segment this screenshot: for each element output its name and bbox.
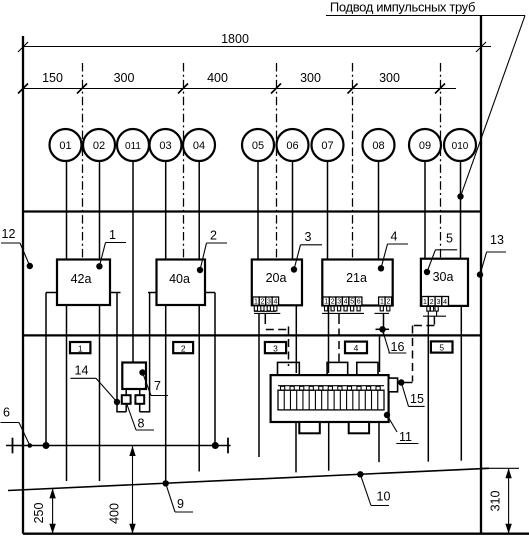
box 21a [322,260,392,306]
svg-text:09: 09 [419,140,431,152]
nameplate box 4 [345,342,367,354]
svg-text:9: 9 [177,497,184,511]
svg-text:3: 3 [305,230,312,244]
nameplate box 1 [70,342,90,353]
saddle bracket of 40a [148,293,215,446]
position label 1 [96,263,102,269]
frame right edge [480,16,482,534]
svg-text:1: 1 [423,299,427,306]
wire from 011 to component 7 [132,161,134,363]
U clamp left (14) [125,404,127,412]
dashed tube route under 20a [264,313,266,324]
label 16 [383,330,390,353]
svg-text:16: 16 [391,340,405,354]
dimension 400 [108,446,136,534]
svg-text:01: 01 [59,140,71,152]
svg-text:4: 4 [273,299,277,306]
svg-text:2: 2 [181,343,186,353]
svg-text:07: 07 [321,140,333,152]
wire from 02 [99,161,101,260]
instrument circles 01..010 [50,129,477,161]
svg-text:5: 5 [350,299,354,306]
svg-text:150: 150 [42,71,63,85]
node 10 dot [357,471,363,477]
label 10 [360,474,371,505]
label 8 [127,405,136,431]
box 42a [57,260,110,306]
wire from 06 [292,161,294,260]
frame bottom edge [23,533,529,535]
svg-text:3: 3 [273,343,278,353]
svg-text:20a: 20a [266,271,287,285]
svg-text:13: 13 [490,233,504,247]
strip cell row [278,390,384,410]
svg-text:02: 02 [93,140,105,152]
svg-text:5: 5 [439,343,444,353]
svg-text:08: 08 [372,140,384,152]
svg-text:4: 4 [354,343,359,353]
svg-text:300: 300 [379,71,400,85]
svg-text:250: 250 [32,503,46,524]
axis dash-dot lines [83,63,441,260]
svg-text:1: 1 [254,299,258,306]
svg-text:40a: 40a [169,272,190,286]
svg-text:06: 06 [286,140,298,152]
svg-text:4: 4 [344,299,348,306]
box 30a [421,259,468,306]
wire from 010 [460,161,462,259]
dimension line 150/300/400/300/300 [23,88,456,90]
dashed tube route 15 from 30a to strip [433,316,435,324]
floor slope line 9/10 [8,468,489,490]
terminal block 1-2 of 21a [379,297,392,306]
strip right connector [389,378,398,392]
svg-text:300: 300 [300,71,321,85]
wire 20a right output [295,305,297,373]
svg-text:1: 1 [380,299,384,306]
svg-text:15: 15 [410,392,424,406]
saddle bracket of 42a [46,293,121,446]
legs of component 7 [125,389,127,395]
svg-text:300: 300 [114,71,135,85]
strip inner top line [278,385,384,387]
terminal legs and bar under 20a [254,305,280,313]
bus line 6 [6,445,231,447]
svg-text:1: 1 [109,228,116,242]
frame band line [23,334,481,336]
wire 20a left output [258,313,260,457]
svg-text:14: 14 [75,364,89,378]
svg-text:4: 4 [443,299,447,306]
svg-text:05: 05 [252,140,264,152]
svg-text:03: 03 [159,140,171,152]
position label 2 [197,267,203,273]
frame top edge [23,210,481,212]
svg-text:2: 2 [430,299,434,306]
svg-text:4: 4 [391,230,398,244]
wire from 09 [424,161,426,259]
dashed tube route under 21a [338,313,340,324]
label 15 [401,383,408,407]
svg-text:1: 1 [78,343,83,353]
svg-text:21a: 21a [346,271,367,285]
box 20a [252,260,302,306]
svg-text:6: 6 [357,299,361,306]
svg-text:310: 310 [489,491,503,512]
svg-text:42a: 42a [71,272,92,286]
strip notches [281,386,381,390]
terminal block 1-4 of 20a [253,297,279,306]
dimension line 1800 [23,46,491,48]
strip feet [299,422,320,433]
terminal block 1-4 of 30a [422,297,449,306]
svg-text:6: 6 [3,406,10,420]
leader diagonal from title to wire 010 [461,16,526,197]
terminal legs and bars under 21a [322,306,390,314]
svg-text:400: 400 [108,503,122,524]
wire 21a right output with node 16 [383,313,385,334]
nameplate box 2 [173,342,193,353]
svg-text:1800: 1800 [221,32,249,46]
component 7 box [122,363,146,390]
terminal strip 11: top tabs [278,362,379,375]
svg-text:5: 5 [446,232,453,246]
box 40a [157,260,206,306]
svg-text:2: 2 [210,229,217,243]
label 9 [166,483,175,512]
title underline [326,15,525,17]
svg-text:011: 011 [125,141,141,152]
svg-text:2: 2 [331,299,335,306]
svg-text:8: 8 [138,417,145,431]
svg-text:2: 2 [261,299,265,306]
terminal strip 11: body [271,375,389,422]
label 7 [139,369,145,375]
position label 3 [291,266,297,272]
svg-text:3: 3 [337,299,341,306]
svg-text:3: 3 [267,299,271,306]
nameplate box 3 [265,342,286,353]
foot squares 8 [122,395,131,404]
svg-text:Подвод импульсных труб: Подвод импульсных труб [330,0,475,15]
node 9 dot [163,480,169,486]
position label 4 [378,265,384,271]
nameplate box 5 [431,341,453,352]
svg-text:04: 04 [193,140,205,152]
wire from 03 [165,161,167,260]
wire 30a right output [460,306,462,461]
frame left edge [22,36,24,534]
svg-text:010: 010 [452,141,469,152]
wire 21a left output [328,306,330,374]
svg-text:3: 3 [436,299,440,306]
svg-text:11: 11 [399,430,412,444]
svg-text:2: 2 [386,299,390,306]
dimension 250 [32,488,56,533]
svg-text:12: 12 [2,227,16,241]
svg-text:10: 10 [377,490,391,504]
position label 5 [424,269,430,275]
node: junction dot on wire 010 [457,193,463,199]
dimension 310 [482,468,519,533]
svg-text:7: 7 [154,379,161,393]
wire from 05 [257,161,259,260]
wire from 07 [327,161,329,260]
terminal legs and bar under 30a [423,306,446,316]
wire from 01 to 42a and down to y481 [66,161,68,260]
wire 30a left output [427,316,429,461]
svg-text:30a: 30a [433,270,454,284]
label 11 [384,412,390,418]
svg-text:1: 1 [324,299,328,306]
wire from 08 [378,161,380,260]
node 14 dot [114,399,120,405]
U clamp right [139,404,141,412]
wire from 04 [198,161,200,260]
svg-text:400: 400 [207,71,228,85]
terminal block 1-6 of 21a [323,297,362,306]
